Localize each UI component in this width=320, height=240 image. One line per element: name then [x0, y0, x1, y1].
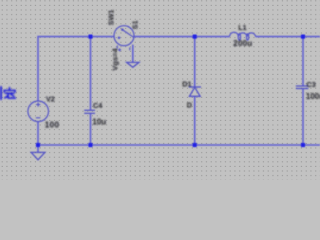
- voltage source V2: [28, 101, 49, 122]
- svg-text:V2: V2: [46, 94, 55, 103]
- svg-text:100: 100: [45, 120, 60, 129]
- svg-text:C3: C3: [307, 80, 316, 89]
- capacitor C3: [296, 86, 309, 89]
- svg-text:D: D: [187, 101, 192, 110]
- svg-text:C4: C4: [93, 101, 102, 110]
- wire D1 branch upper: [194, 37, 196, 87]
- ground (switch control): [127, 62, 139, 67]
- svg-text:100u: 100u: [306, 92, 320, 101]
- wire V2 lower: [37, 122, 39, 152]
- junction node C4 top: [88, 35, 92, 39]
- junction C4 bottom: [88, 143, 92, 147]
- wire top right segment: [134, 36, 230, 38]
- capacitor C4: [84, 110, 95, 113]
- junction node C3 top: [301, 35, 305, 39]
- junction node SW-L1-D1 top: [193, 35, 197, 39]
- svg-text:D1: D1: [182, 79, 191, 88]
- inductor L1: [230, 32, 256, 40]
- svg-text:L1: L1: [238, 23, 246, 32]
- wire switch control to ground: [132, 45, 134, 63]
- diode D1: [189, 87, 201, 96]
- wire C4 branch lower: [90, 113, 92, 145]
- junction C3 bottom: [301, 143, 305, 147]
- svg-text:Vgs=4: Vgs=4: [111, 47, 120, 70]
- svg-text:200u: 200u: [233, 39, 252, 48]
- comment text 測定 (hand-drawn, clipped at left): [1, 87, 15, 99]
- char 定: [9, 88, 11, 90]
- junction D1 bottom: [193, 143, 197, 147]
- svg-text:10u: 10u: [92, 118, 106, 127]
- wire bottom rail: [38, 144, 320, 146]
- wire C3 branch upper: [302, 37, 304, 86]
- wire top left segment: [38, 37, 114, 101]
- svg-text:S1: S1: [131, 20, 140, 29]
- ground (bottom left): [31, 152, 45, 159]
- wire C3 branch lower: [302, 89, 304, 146]
- svg-text:SW1: SW1: [107, 10, 116, 26]
- wire C4 branch upper: [90, 37, 92, 111]
- junction ground left: [36, 143, 40, 147]
- wire inductor to right edge: [256, 36, 320, 38]
- partial char 測 right part: [0, 87, 2, 99]
- wire D1 branch lower: [194, 96, 196, 145]
- switch S1: [114, 26, 134, 52]
